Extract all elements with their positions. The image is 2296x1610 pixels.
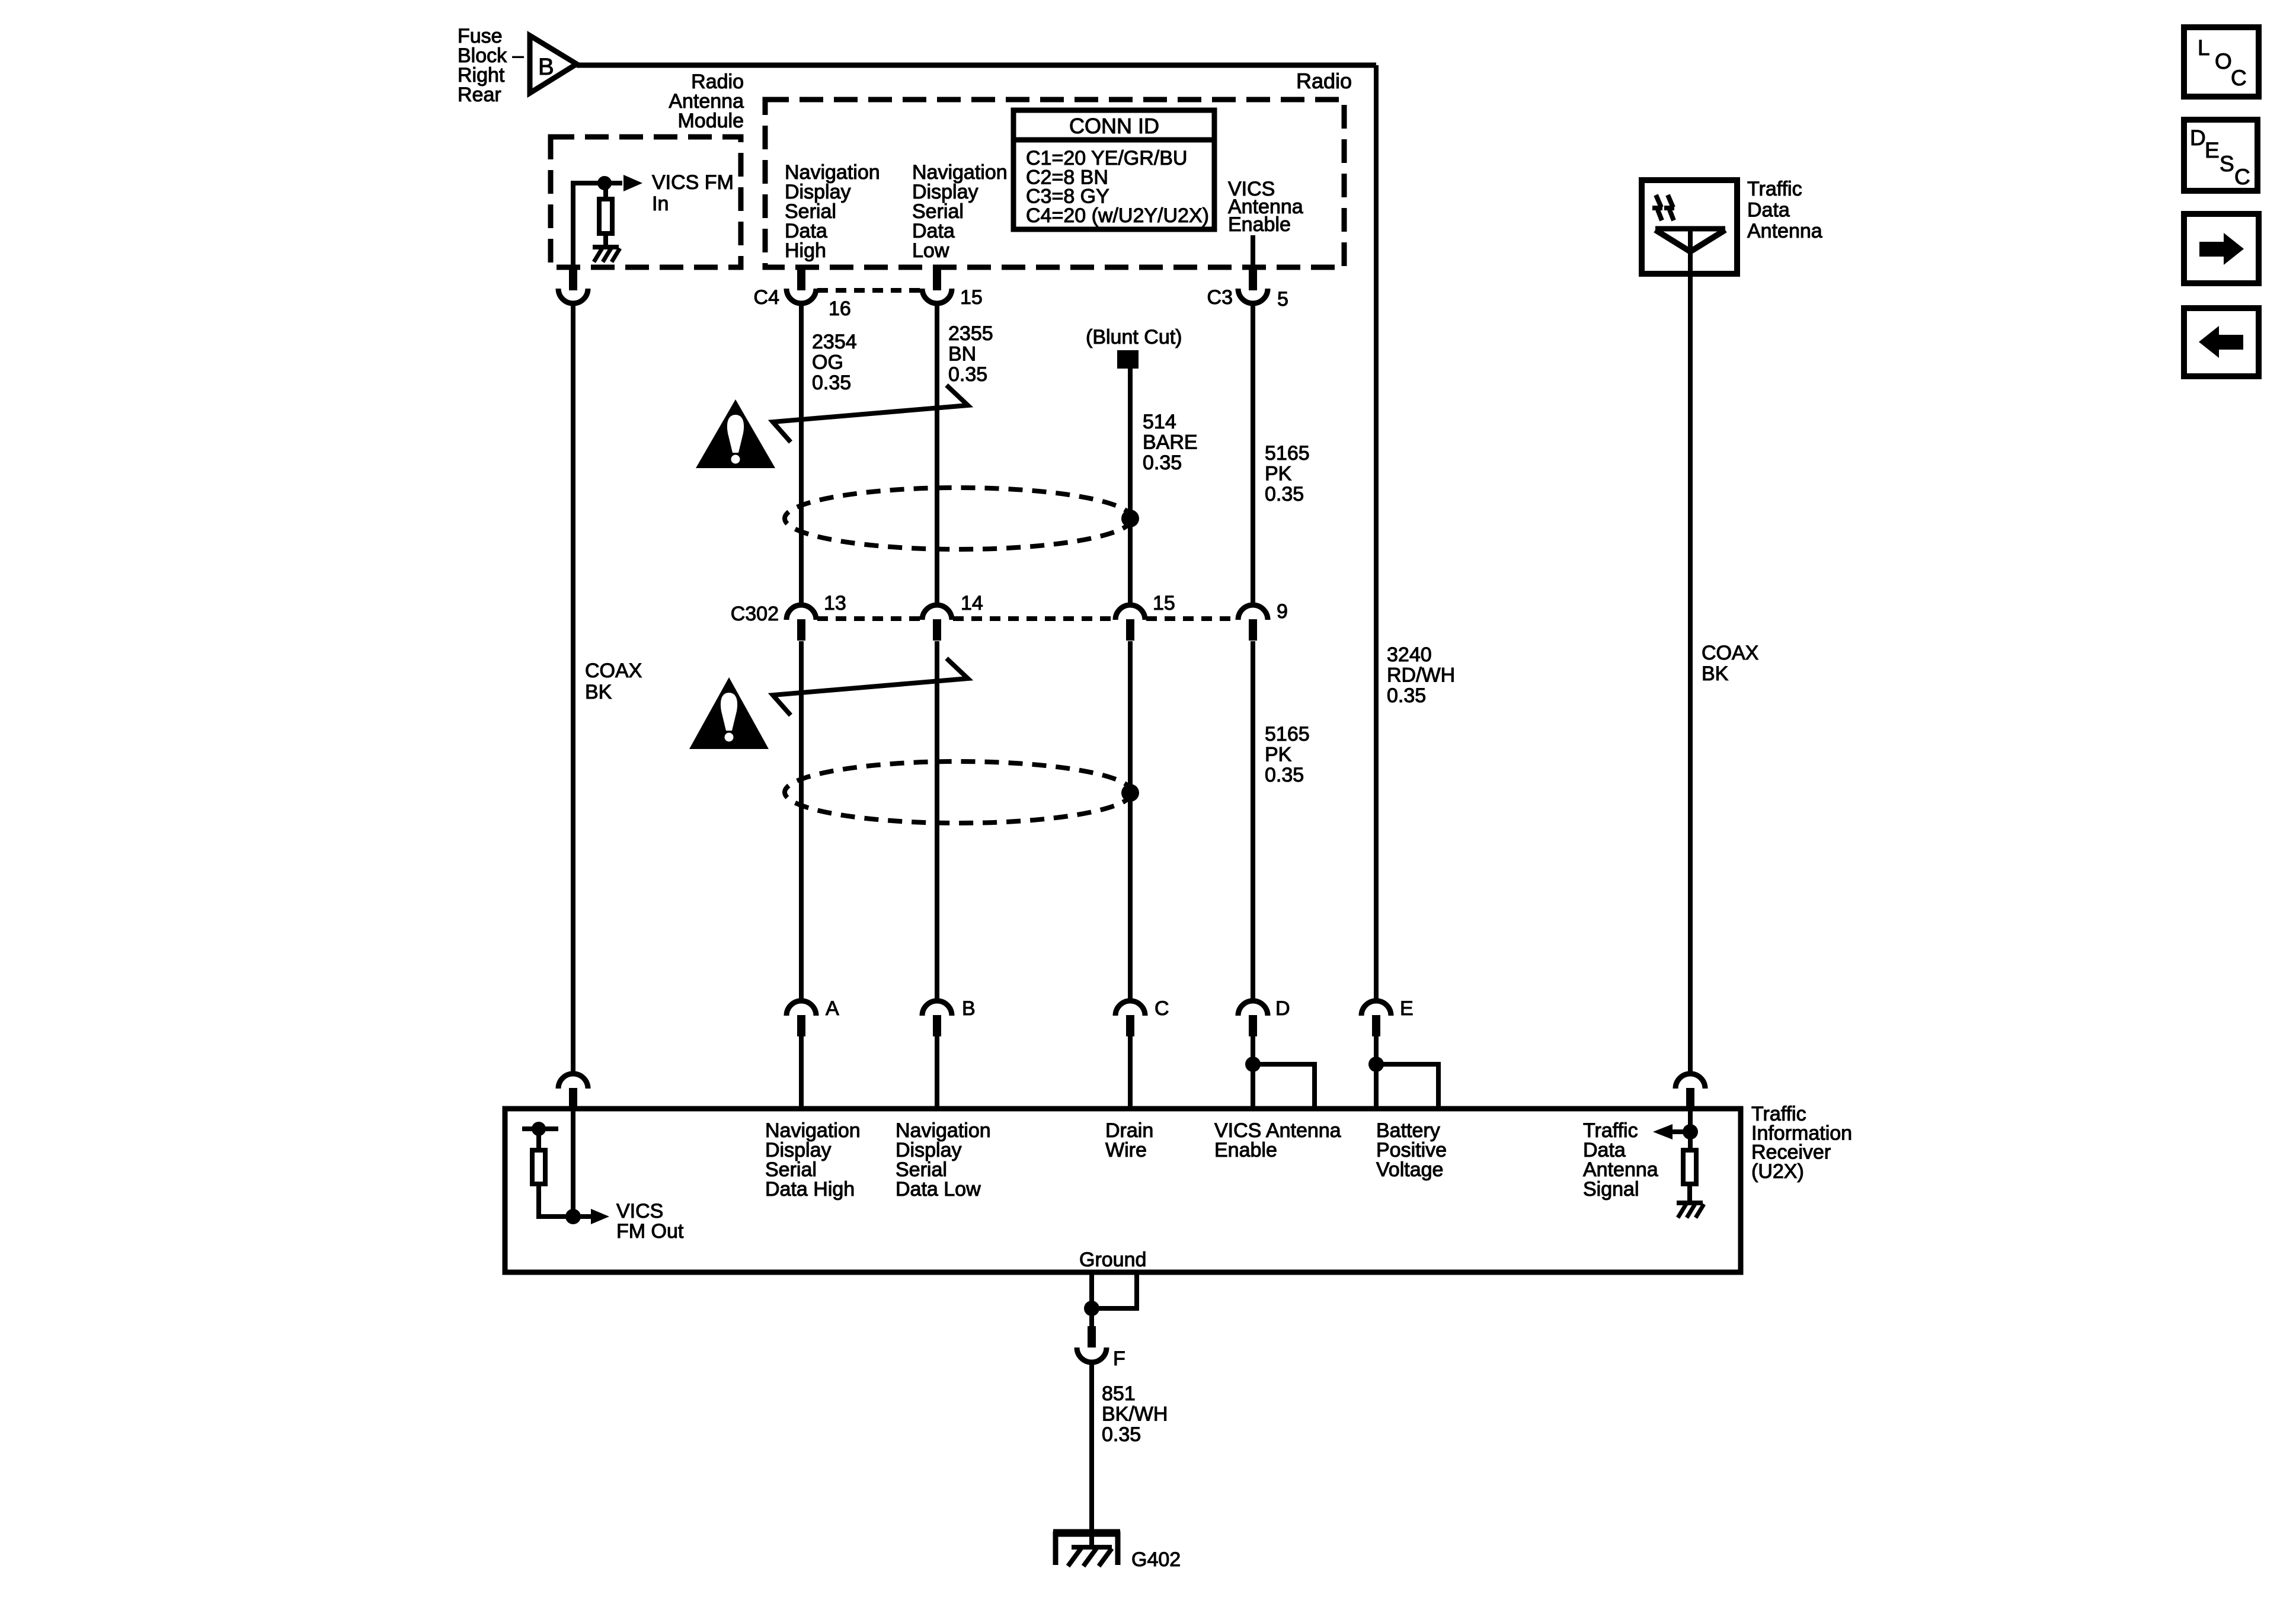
svg-text:OG: OG	[812, 351, 843, 374]
svg-text:(U2X): (U2X)	[1751, 1160, 1804, 1183]
svg-text:0.35: 0.35	[948, 363, 987, 386]
svg-text:Data Low: Data Low	[896, 1178, 981, 1201]
svg-text:RD/WH: RD/WH	[1387, 664, 1455, 687]
svg-text:VICS: VICS	[616, 1200, 663, 1222]
svg-text:E: E	[2205, 138, 2220, 162]
svg-text:5: 5	[1277, 288, 1288, 311]
svg-text:F: F	[1113, 1347, 1125, 1370]
svg-text:BK/WH: BK/WH	[1102, 1403, 1168, 1426]
svg-text:COAX: COAX	[585, 660, 642, 682]
svg-text:15: 15	[1153, 592, 1175, 614]
svg-text:C4: C4	[754, 286, 779, 309]
svg-text:E: E	[1400, 997, 1414, 1020]
svg-text:Rear: Rear	[458, 84, 501, 106]
svg-text:Voltage: Voltage	[1376, 1158, 1443, 1181]
svg-text:A: A	[826, 997, 839, 1020]
svg-text:VICS FM: VICS FM	[652, 171, 734, 194]
svg-text:BK: BK	[1702, 662, 1729, 685]
svg-text:Ground: Ground	[1079, 1249, 1146, 1271]
svg-text:B: B	[538, 54, 554, 80]
svg-text:C302: C302	[731, 603, 779, 625]
svg-text:L: L	[2198, 36, 2210, 60]
svg-text:CONN ID: CONN ID	[1069, 114, 1159, 138]
svg-text:514: 514	[1143, 411, 1176, 433]
svg-text:FM Out: FM Out	[616, 1220, 684, 1243]
svg-text:0.35: 0.35	[1387, 684, 1426, 707]
svg-text:B: B	[962, 997, 976, 1020]
svg-text:Radio: Radio	[1296, 69, 1352, 93]
svg-text:Signal: Signal	[1583, 1178, 1639, 1201]
svg-text:C: C	[1155, 997, 1169, 1020]
svg-text:High: High	[785, 239, 826, 262]
svg-text:Enable: Enable	[1214, 1139, 1277, 1161]
svg-text:Module: Module	[677, 110, 744, 132]
svg-text:Wire: Wire	[1105, 1139, 1147, 1161]
svg-text:2354: 2354	[812, 331, 857, 353]
svg-text:9: 9	[1277, 600, 1288, 623]
svg-text:In: In	[652, 193, 669, 215]
svg-text:COAX: COAX	[1702, 642, 1758, 664]
svg-text:S: S	[2220, 152, 2234, 176]
svg-text:0.35: 0.35	[812, 372, 851, 394]
svg-text:D: D	[2190, 126, 2206, 150]
svg-text:16: 16	[829, 297, 851, 320]
svg-text:BN: BN	[948, 343, 976, 366]
svg-text:0.35: 0.35	[1102, 1423, 1141, 1446]
svg-text:C4=20 (w/U2Y/U2X): C4=20 (w/U2Y/U2X)	[1026, 204, 1209, 227]
svg-text:G402: G402	[1131, 1548, 1181, 1571]
svg-text:0.35: 0.35	[1265, 764, 1304, 786]
svg-text:5165: 5165	[1265, 723, 1310, 745]
svg-text:13: 13	[824, 592, 846, 614]
svg-text:C: C	[2231, 66, 2247, 90]
svg-text:D: D	[1275, 997, 1290, 1020]
svg-text:Enable: Enable	[1228, 213, 1291, 236]
svg-text:0.35: 0.35	[1265, 483, 1304, 505]
svg-text:(Blunt Cut): (Blunt Cut)	[1086, 326, 1182, 348]
svg-text:Antenna: Antenna	[1747, 220, 1822, 242]
svg-text:PK: PK	[1265, 744, 1292, 766]
svg-text:851: 851	[1102, 1382, 1136, 1405]
svg-text:PK: PK	[1265, 463, 1292, 485]
svg-text:O: O	[2215, 49, 2232, 73]
svg-text:C3: C3	[1207, 286, 1233, 309]
svg-text:2355: 2355	[948, 322, 993, 345]
svg-text:15: 15	[960, 286, 983, 309]
svg-text:Data: Data	[1747, 199, 1790, 222]
svg-text:BARE: BARE	[1143, 431, 1198, 454]
svg-text:3240: 3240	[1387, 644, 1432, 666]
svg-text:Low: Low	[912, 239, 949, 262]
svg-text:5165: 5165	[1265, 442, 1310, 465]
svg-text:BK: BK	[585, 681, 612, 703]
svg-text:C: C	[2234, 165, 2250, 189]
svg-text:Data High: Data High	[765, 1178, 855, 1201]
svg-text:0.35: 0.35	[1143, 452, 1182, 474]
svg-text:Traffic: Traffic	[1747, 178, 1802, 200]
svg-text:14: 14	[961, 592, 983, 614]
